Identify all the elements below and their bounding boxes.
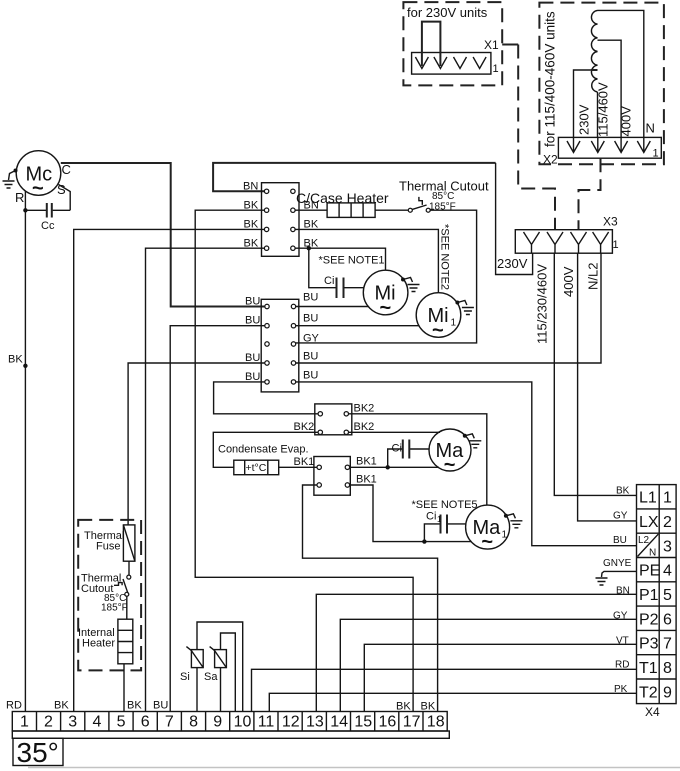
svg-text:T1: T1 xyxy=(639,660,658,677)
bus T2 from terminal 12 xyxy=(269,693,636,711)
svg-text:N/L2: N/L2 xyxy=(586,263,601,290)
capacitor Ci1 of Ma1 xyxy=(424,511,466,542)
svg-text:*SEE NOTE5: *SEE NOTE5 xyxy=(412,499,478,511)
wire BK row3 right to Mi1 top (SEE NOTE2) xyxy=(295,229,438,292)
svg-text:6: 6 xyxy=(663,612,672,629)
sensor Sa xyxy=(204,633,235,712)
svg-text:Heater: Heater xyxy=(82,638,115,650)
ground at Mc xyxy=(3,169,18,189)
svg-text:~: ~ xyxy=(432,320,444,342)
svg-text:12: 12 xyxy=(282,714,300,731)
svg-text:10: 10 xyxy=(234,714,252,731)
wire heater to thermal cutout xyxy=(375,209,408,211)
motor Mi1 xyxy=(416,293,474,342)
svg-text:Fuse: Fuse xyxy=(96,541,120,553)
compressor motor Mc xyxy=(15,151,71,205)
svg-text:1: 1 xyxy=(502,530,508,541)
svg-text:BK1: BK1 xyxy=(294,456,315,468)
svg-text:BU: BU xyxy=(245,296,260,308)
svg-text:230V: 230V xyxy=(497,256,528,271)
svg-text:3: 3 xyxy=(68,714,77,731)
svg-text:1: 1 xyxy=(20,714,29,731)
wire S to capacitor xyxy=(59,185,71,211)
svg-text:X4: X4 xyxy=(645,705,660,719)
X3 clamp3 wire to X4 LX xyxy=(578,253,637,521)
wire BK1 row1 right to Ma xyxy=(350,466,439,468)
terminal table X4 xyxy=(637,485,677,719)
wire BU row5 right to X4 L2/N xyxy=(296,382,637,546)
svg-text:16: 16 xyxy=(379,714,397,731)
svg-text:GY: GY xyxy=(303,333,320,345)
svg-text:*SEE NOTE2: *SEE NOTE2 xyxy=(439,224,451,290)
svg-text:X3: X3 xyxy=(603,215,618,229)
svg-text:35°: 35° xyxy=(17,737,59,768)
svg-text:P1: P1 xyxy=(639,587,659,604)
svg-text:BK: BK xyxy=(421,701,436,713)
svg-text:8: 8 xyxy=(189,714,198,731)
node splice on R wire xyxy=(23,364,27,368)
svg-text:5: 5 xyxy=(117,714,126,731)
svg-text:BK2: BK2 xyxy=(294,421,315,433)
svg-text:185°F: 185°F xyxy=(101,603,128,614)
svg-text:2: 2 xyxy=(44,714,53,731)
svg-text:BK1: BK1 xyxy=(356,456,377,468)
svg-text:9: 9 xyxy=(663,685,672,702)
terminal block X3 xyxy=(515,215,618,254)
svg-text:230V: 230V xyxy=(577,104,592,135)
svg-text:BU: BU xyxy=(613,535,627,546)
svg-text:for 230V units: for 230V units xyxy=(407,5,488,20)
PE ground xyxy=(596,558,637,585)
svg-text:~: ~ xyxy=(380,297,392,319)
svg-text:1: 1 xyxy=(493,63,499,75)
svg-text:7: 7 xyxy=(663,636,672,653)
svg-text:C: C xyxy=(62,162,71,177)
svg-text:4: 4 xyxy=(93,714,102,731)
svg-text:~: ~ xyxy=(444,454,456,476)
condensate evaporator thermostat xyxy=(218,444,309,475)
sensor Si xyxy=(180,622,243,712)
motor Ma xyxy=(429,429,481,476)
svg-text:BN: BN xyxy=(243,181,258,193)
svg-text:+t°C: +t°C xyxy=(246,462,267,474)
svg-text:Cc: Cc xyxy=(41,220,55,232)
svg-text:X1: X1 xyxy=(484,38,499,52)
wire cutout right down to GY row3 of K2 xyxy=(296,210,477,343)
winding 115/460V end xyxy=(597,92,599,138)
svg-text:1: 1 xyxy=(663,490,672,507)
connector X2 xyxy=(543,137,661,166)
svg-text:L2: L2 xyxy=(638,535,650,546)
thermal fuse xyxy=(84,525,135,561)
svg-text:400V: 400V xyxy=(619,106,634,137)
svg-text:15: 15 xyxy=(354,714,372,731)
svg-text:X2: X2 xyxy=(543,153,558,167)
svg-text:*SEE NOTE1: *SEE NOTE1 xyxy=(319,255,385,267)
svg-text:BK2: BK2 xyxy=(354,421,375,433)
svg-text:13: 13 xyxy=(306,714,324,731)
wire BK1 row2 right down to Ma1 xyxy=(350,485,472,542)
wire BK2 row1 right to Ma1 top xyxy=(349,414,487,506)
thermal cutout (internal) xyxy=(81,561,131,619)
svg-text:6: 6 xyxy=(141,714,150,731)
svg-text:C/Case Heater: C/Case Heater xyxy=(296,190,389,206)
svg-text:P2: P2 xyxy=(639,612,659,629)
svg-text:BU: BU xyxy=(153,700,168,712)
svg-text:11: 11 xyxy=(258,714,275,731)
X1 option dashed link to X3 xyxy=(502,44,518,46)
svg-text:2: 2 xyxy=(663,514,672,531)
svg-text:BK: BK xyxy=(244,238,259,250)
svg-text:N: N xyxy=(649,548,656,559)
wire R down to terminal 1 xyxy=(24,191,26,712)
svg-text:18: 18 xyxy=(427,714,445,731)
svg-text:BK: BK xyxy=(244,200,259,212)
winding N end xyxy=(598,10,644,137)
connector X1 xyxy=(412,38,499,75)
svg-text:BU: BU xyxy=(303,351,318,363)
svg-text:400V: 400V xyxy=(561,266,576,297)
svg-text:8: 8 xyxy=(663,660,672,677)
svg-text:~: ~ xyxy=(32,178,44,200)
internal heater xyxy=(78,619,133,664)
X3 clamp2 wire to X4 L1 xyxy=(554,253,636,495)
wire BU row4 right to X3 N/L2 clamp xyxy=(296,253,601,363)
svg-text:RD: RD xyxy=(6,700,22,712)
svg-text:BK: BK xyxy=(54,700,69,712)
motor Ma1 xyxy=(466,505,523,553)
svg-text:Si: Si xyxy=(180,671,190,683)
svg-text:1: 1 xyxy=(653,148,659,160)
wire X1/230V node down to X3 clamp 1 xyxy=(496,163,533,275)
svg-text:5: 5 xyxy=(663,587,672,604)
svg-text:for 115/400-460V units: for 115/400-460V units xyxy=(543,11,558,147)
svg-text:7: 7 xyxy=(165,714,174,731)
wire BN row2 right to case heater xyxy=(295,209,327,211)
wire BK2 row2 right to Ma top-left xyxy=(349,431,441,433)
wire BU row2 right to Mi1 left xyxy=(296,325,419,327)
svg-text:1: 1 xyxy=(451,318,457,329)
wire heater to terminal 5 xyxy=(123,664,125,712)
svg-text:BK: BK xyxy=(127,700,142,712)
svg-text:P3: P3 xyxy=(639,636,659,653)
bus P2 from terminal 14 xyxy=(340,619,636,711)
transformer winding xyxy=(574,10,655,137)
svg-text:14: 14 xyxy=(330,714,348,731)
C/Case Heater xyxy=(296,190,389,217)
wire thermostat to K4 row1 xyxy=(279,466,317,468)
X2 option dashed link to X3 xyxy=(579,158,601,230)
connector K3 (BK2) xyxy=(294,403,375,435)
connector K1 (4-pin) xyxy=(243,181,319,257)
dashed box for 230V units xyxy=(403,2,502,85)
svg-text:BK: BK xyxy=(616,486,630,497)
wire BU row2 left down to terminal 7 xyxy=(170,326,265,712)
bus T1 from terminal 11 xyxy=(252,669,637,711)
svg-text:BK: BK xyxy=(244,219,259,231)
svg-text:BK2: BK2 xyxy=(354,403,375,415)
svg-text:Condensate Evap.: Condensate Evap. xyxy=(218,444,309,456)
svg-text:BU: BU xyxy=(303,292,318,304)
svg-text:S: S xyxy=(57,182,66,197)
bus P3 from terminal 15 xyxy=(364,644,636,711)
svg-text:BU: BU xyxy=(303,313,318,325)
svg-text:115/460V: 115/460V xyxy=(596,82,611,137)
wire BU row5 left to K3 row1 xyxy=(214,382,319,414)
connector K4 (BK1) xyxy=(294,456,377,496)
wire BK row4 of K1 to terminal 6 xyxy=(146,248,265,711)
svg-text:Ci: Ci xyxy=(426,511,436,523)
motor Mi xyxy=(363,270,419,319)
svg-text:PE: PE xyxy=(639,563,660,580)
svg-text:Ci: Ci xyxy=(324,275,334,287)
svg-text:115/230/460V: 115/230/460V xyxy=(535,264,550,344)
svg-text:BK1: BK1 xyxy=(356,474,377,486)
svg-text:~: ~ xyxy=(481,531,493,553)
svg-text:BU: BU xyxy=(245,352,260,364)
thermal cutout switch (top) xyxy=(399,179,489,213)
svg-text:9: 9 xyxy=(213,714,222,731)
svg-text:R: R xyxy=(15,190,24,205)
svg-text:Sa: Sa xyxy=(204,671,218,683)
winding 400V tap xyxy=(598,40,622,137)
svg-text:BK: BK xyxy=(8,354,23,366)
svg-text:N: N xyxy=(646,121,655,136)
capacitor Ci of Ma xyxy=(388,440,430,468)
svg-text:1: 1 xyxy=(437,515,442,524)
terminal strip 1-18 xyxy=(12,712,449,739)
svg-text:85°C: 85°C xyxy=(432,191,454,202)
svg-text:4: 4 xyxy=(663,563,672,580)
svg-text:1: 1 xyxy=(613,239,619,251)
thermal protection dashed box xyxy=(78,520,141,671)
capacitor Cc xyxy=(23,203,70,232)
svg-text:L1: L1 xyxy=(639,490,657,507)
wire BU row4 left to thermal fuse chain xyxy=(128,363,265,525)
wire BK2 row2 left to condensate thermostat xyxy=(213,432,318,467)
svg-text:3: 3 xyxy=(663,539,672,556)
winding 230V tap xyxy=(591,69,598,71)
svg-text:LX: LX xyxy=(639,514,659,531)
svg-text:BU: BU xyxy=(245,315,260,327)
35 degree box xyxy=(13,737,63,768)
wire BK row3 of K1 to terminal 3 xyxy=(74,229,265,711)
wire BK1 row2 left to terminal 18 xyxy=(303,485,438,712)
wire BK row2 of K1 to terminal 17 xyxy=(195,210,413,711)
connector K2 (5-pin BU) xyxy=(245,292,320,392)
svg-text:T2: T2 xyxy=(639,685,658,702)
plug jumper into X1 xyxy=(422,22,441,66)
wire BU row1 right to Mi bottom xyxy=(296,306,369,308)
svg-text:BK: BK xyxy=(396,701,411,713)
bus P1 from terminal 13 xyxy=(316,594,636,711)
dashed box for 115/400-460V units xyxy=(539,3,664,165)
svg-text:GY: GY xyxy=(613,511,628,522)
wire BN feed from 230V node to connector K1 xyxy=(213,163,496,191)
wire BK row4 right to Mi top xyxy=(295,248,385,270)
capacitor Ci branch to Mi xyxy=(309,248,365,298)
faint page artifact line at bottom xyxy=(28,767,680,769)
wire C from Mc to connector K1 row1 (BU) xyxy=(61,163,265,307)
svg-text:Ci: Ci xyxy=(392,443,402,455)
svg-text:GNYE: GNYE xyxy=(603,558,632,569)
svg-text:17: 17 xyxy=(403,714,421,731)
svg-text:BU: BU xyxy=(303,370,318,382)
